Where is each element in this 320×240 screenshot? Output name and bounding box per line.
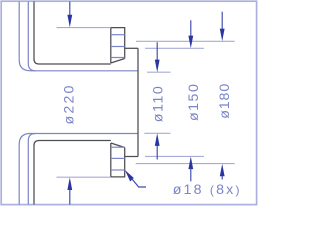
extension line Ø150 bottom	[145, 155, 204, 157]
dimension Ø180 top: arrowhead (down)	[220, 29, 225, 42]
flange section outline, top (gray)	[111, 28, 125, 63]
dimension Ø220 bottom: arrowhead (up)	[67, 177, 72, 190]
extension line Ø110 bottom	[144, 132, 170, 134]
pipe outer silhouette tangent edge, top-left (blue, large corner)	[19, 2, 138, 71]
pipe visible edge, top-left (gray, small corner)	[34, 2, 111, 65]
flange section outline, bottom (gray)	[111, 143, 125, 177]
extension line Ø180 bottom	[136, 163, 235, 165]
leader line for Ø18	[132, 179, 146, 188]
dimension Ø150 bottom: shaft	[190, 169, 192, 182]
pipe outer silhouette tangent edge, bottom-left (blue, large corner)	[19, 134, 138, 205]
svg-text:ø110: ø110	[151, 85, 167, 123]
bolt hole edge line 2, top section (blue)	[111, 46, 125, 48]
dimension Ø220 top: arrowhead (down)	[67, 15, 72, 28]
dimension Ø180 top: shaft	[221, 12, 223, 29]
extension line Ø220 bottom	[57, 176, 111, 178]
hub step edge, bottom (gray)	[125, 156, 138, 158]
dimension Ø180 bottom: shaft	[221, 176, 223, 180]
dimension Ø220 top: shaft	[69, 2, 71, 16]
pipe visible edge, bottom-left (gray, small corner)	[34, 141, 111, 205]
pipe fillet tangent edge, top-left (blue, middle corner)	[28, 2, 35, 71]
svg-text:ø180: ø180	[217, 83, 233, 119]
svg-text:ø150: ø150	[186, 83, 202, 121]
extension line Ø110 top	[147, 71, 171, 73]
bolt hole edge line, bottom section (blue)	[111, 169, 125, 171]
extension line Ø150 top	[145, 47, 204, 49]
dimension Ø150 top: arrowhead (down)	[188, 36, 193, 49]
dimension Ø110 bottom: arrowhead (up)	[155, 133, 160, 146]
dimension Ø150 bottom: arrowhead (up)	[188, 157, 193, 170]
extension line Ø220 top	[57, 27, 111, 29]
dimension Ø180 bottom: arrowhead (up)	[220, 164, 225, 177]
flange section chamfer diagonal, bottom	[111, 143, 125, 148]
extension line Ø180 top	[136, 40, 235, 42]
pipe fillet tangent edge, bottom-left (blue, middle corner)	[28, 134, 35, 205]
svg-text:ø18 (8x): ø18 (8x)	[173, 182, 242, 198]
hub step edge, top (gray)	[125, 47, 138, 49]
dimension Ø220 bottom: shaft	[69, 190, 71, 205]
counterbore edge line, top section (blue)	[111, 57, 125, 59]
leader arrowhead for Ø18 bolt hole (points up-left)	[125, 170, 134, 182]
bolt hole edge line 2, bottom section (blue)	[111, 157, 125, 159]
svg-text:ø220: ø220	[62, 83, 78, 124]
dimension Ø110 top: shaft	[156, 42, 158, 60]
flange section chamfer diagonal, top	[111, 59, 125, 64]
counterbore edge line, bottom section (blue)	[111, 146, 125, 148]
bolt hole edge line, top section (blue)	[111, 34, 125, 36]
hub right face edge (gray vertical)	[137, 48, 139, 156]
dimension Ø110 bottom: shaft	[156, 146, 158, 160]
dimension Ø110 top: arrowhead (down)	[155, 60, 160, 73]
dimension Ø150 top: shaft	[190, 20, 192, 36]
